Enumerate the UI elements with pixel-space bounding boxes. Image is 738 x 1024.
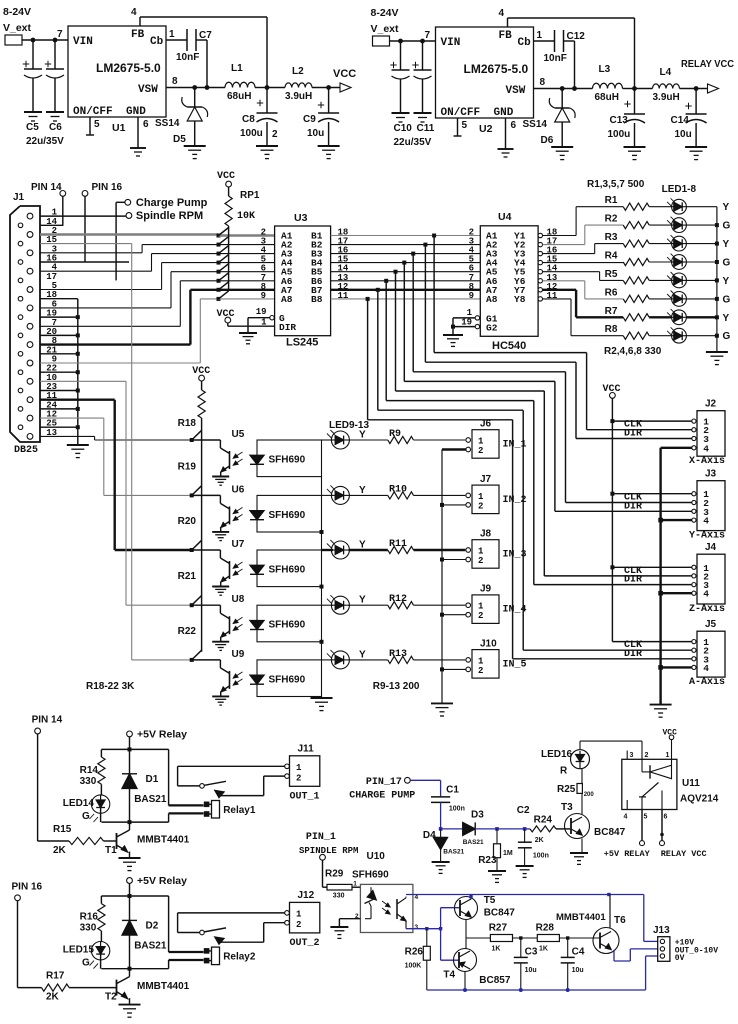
svg-text:A-Axis: A-Axis (689, 676, 725, 688)
svg-text:R15: R15 (53, 824, 72, 835)
svg-text:R5: R5 (605, 269, 618, 280)
svg-text:2: 2 (478, 611, 483, 621)
svg-text:D5: D5 (173, 134, 186, 145)
svg-text:U9: U9 (232, 649, 245, 660)
svg-text:U10: U10 (367, 851, 386, 862)
svg-text:1: 1 (467, 308, 473, 318)
svg-text:J4: J4 (705, 542, 717, 553)
svg-text:J10: J10 (480, 638, 497, 649)
svg-text:HC540: HC540 (492, 340, 526, 352)
svg-text:SS14: SS14 (155, 118, 180, 129)
svg-text:1: 1 (478, 656, 484, 666)
svg-text:J11: J11 (298, 744, 315, 755)
svg-text:10u: 10u (525, 967, 537, 974)
svg-text:PIN_1: PIN_1 (306, 832, 336, 843)
svg-text:100u: 100u (240, 128, 263, 139)
svg-text:BAS21: BAS21 (443, 849, 464, 856)
svg-text:T5: T5 (484, 895, 496, 906)
svg-text:R2: R2 (605, 214, 618, 225)
svg-text:D1: D1 (146, 774, 159, 785)
svg-text:J2: J2 (705, 399, 717, 410)
svg-text:+5V RELAY: +5V RELAY (604, 849, 651, 859)
svg-text:8-24V: 8-24V (3, 6, 31, 18)
svg-text:10K: 10K (237, 211, 255, 222)
svg-text:3.9uH: 3.9uH (285, 91, 312, 102)
svg-text:U5: U5 (232, 429, 245, 440)
svg-text:MMBT4401: MMBT4401 (556, 912, 606, 923)
svg-text:3: 3 (630, 752, 634, 759)
svg-text:R7: R7 (605, 306, 618, 317)
svg-text:1: 1 (478, 437, 484, 447)
svg-text:DB25: DB25 (14, 445, 38, 456)
svg-text:C13: C13 (610, 115, 629, 126)
svg-text:G: G (723, 258, 731, 269)
svg-text:10nF: 10nF (544, 53, 567, 64)
svg-text:C1: C1 (446, 785, 459, 796)
svg-text:V_ext: V_ext (371, 23, 400, 35)
svg-text:OUT_1: OUT_1 (290, 792, 320, 803)
svg-text:0V: 0V (675, 954, 685, 963)
svg-text:A8: A8 (486, 294, 498, 305)
svg-text:T1: T1 (105, 845, 117, 856)
svg-text:CHARGE PUMP: CHARGE PUMP (349, 791, 415, 802)
svg-text:GND: GND (494, 107, 514, 119)
svg-text:VIN: VIN (441, 37, 461, 49)
svg-text:Y: Y (359, 649, 366, 660)
svg-text:U6: U6 (232, 484, 245, 495)
svg-text:PIN 14: PIN 14 (31, 182, 62, 193)
svg-text:C3: C3 (525, 946, 538, 957)
svg-text:C7: C7 (199, 30, 212, 41)
svg-text:FB: FB (499, 30, 513, 42)
svg-text:1: 1 (478, 492, 484, 502)
svg-text:2: 2 (296, 920, 301, 930)
svg-text:10nF: 10nF (176, 52, 199, 63)
svg-text:Y: Y (723, 313, 730, 324)
svg-text:5: 5 (94, 119, 100, 130)
svg-text:U8: U8 (232, 594, 245, 605)
svg-text:Y: Y (359, 595, 366, 606)
svg-text:VCC: VCC (217, 171, 235, 182)
svg-text:PIN 16: PIN 16 (92, 182, 123, 193)
svg-text:VCC: VCC (333, 68, 356, 80)
svg-text:100u: 100u (608, 129, 631, 140)
svg-text:22u/35V: 22u/35V (394, 137, 432, 148)
svg-text:100n: 100n (533, 852, 549, 859)
svg-text:2: 2 (478, 666, 483, 676)
svg-text:Y-Axis: Y-Axis (689, 530, 725, 542)
svg-text:1: 1 (537, 30, 543, 41)
svg-text:U2: U2 (479, 123, 493, 135)
svg-text:22u/35V: 22u/35V (26, 136, 64, 147)
svg-text:100n: 100n (449, 806, 465, 813)
svg-text:1: 1 (666, 752, 670, 759)
svg-text:9: 9 (261, 291, 266, 301)
svg-text:D3: D3 (471, 810, 484, 821)
svg-text:2K: 2K (46, 992, 60, 1003)
svg-text:X-Axis: X-Axis (689, 455, 725, 467)
svg-text:SPINDLE RPM: SPINDLE RPM (299, 846, 358, 856)
svg-text:330: 330 (80, 923, 97, 934)
svg-text:1: 1 (478, 547, 484, 557)
svg-text:R24: R24 (534, 815, 553, 826)
svg-text:C4: C4 (572, 946, 585, 957)
svg-text:J5: J5 (705, 619, 717, 630)
svg-text:R6: R6 (605, 287, 618, 298)
svg-text:LED1-8: LED1-8 (662, 184, 697, 195)
svg-text:Z-Axis: Z-Axis (689, 603, 725, 615)
svg-text:R18-22 3K: R18-22 3K (86, 681, 135, 692)
svg-text:R3: R3 (605, 232, 618, 243)
svg-text:MMBT4401: MMBT4401 (137, 981, 190, 992)
svg-text:R14: R14 (80, 765, 99, 776)
svg-text:R16: R16 (80, 912, 99, 923)
svg-text:AQV214: AQV214 (680, 794, 719, 805)
svg-text:2: 2 (478, 501, 483, 511)
svg-text:R1: R1 (605, 195, 618, 206)
svg-text:7: 7 (425, 30, 431, 41)
svg-text:G2: G2 (486, 323, 498, 334)
svg-text:SFH690: SFH690 (269, 510, 306, 521)
svg-text:Charge Pump: Charge Pump (136, 197, 208, 209)
svg-text:D2: D2 (146, 921, 159, 932)
svg-text:SS14: SS14 (523, 119, 548, 130)
svg-text:U1: U1 (112, 122, 126, 134)
svg-text:2: 2 (645, 752, 649, 759)
svg-text:G: G (723, 221, 731, 232)
svg-text:C12: C12 (567, 31, 586, 42)
svg-text:J8: J8 (480, 529, 492, 540)
svg-text:1: 1 (478, 602, 484, 612)
svg-text:T3: T3 (561, 802, 573, 813)
svg-text:8: 8 (172, 76, 178, 87)
svg-text:Spindle RPM: Spindle RPM (136, 210, 203, 222)
svg-text:R17: R17 (46, 971, 65, 982)
svg-text:LED14: LED14 (63, 798, 95, 809)
svg-text:VSW: VSW (138, 84, 158, 96)
svg-text:2: 2 (478, 446, 483, 456)
svg-text:FB: FB (131, 29, 145, 41)
svg-text:MMBT4401: MMBT4401 (137, 835, 190, 846)
svg-text:2K: 2K (535, 837, 544, 844)
svg-text:200: 200 (584, 792, 595, 798)
svg-text:Y: Y (723, 202, 730, 213)
svg-text:LM2675-5.0: LM2675-5.0 (96, 61, 161, 75)
svg-text:LED16: LED16 (541, 749, 573, 760)
svg-text:L1: L1 (231, 63, 243, 74)
svg-text:C5: C5 (26, 122, 39, 133)
svg-text:Y8: Y8 (514, 294, 526, 305)
svg-text:SFH690: SFH690 (269, 455, 306, 466)
svg-text:R8: R8 (605, 324, 618, 335)
svg-text:OUT_2: OUT_2 (290, 938, 320, 949)
svg-text:R4: R4 (605, 251, 618, 262)
svg-text:IN_5: IN_5 (503, 659, 527, 670)
svg-text:R27: R27 (489, 922, 508, 933)
svg-text:R2,4,6,8 330: R2,4,6,8 330 (604, 346, 662, 357)
svg-text:6: 6 (143, 119, 149, 130)
svg-text:R28: R28 (536, 922, 555, 933)
svg-text:Cb: Cb (518, 37, 532, 49)
svg-text:4: 4 (131, 7, 137, 18)
svg-text:C2: C2 (517, 805, 530, 816)
svg-text:4: 4 (703, 663, 709, 674)
svg-text:LS245: LS245 (286, 337, 318, 349)
svg-text:5: 5 (462, 120, 468, 131)
svg-text:PIN 16: PIN 16 (12, 881, 43, 892)
svg-text:10u: 10u (307, 128, 324, 139)
svg-text:C11: C11 (417, 123, 435, 134)
svg-text:R1,3,5,7 500: R1,3,5,7 500 (587, 179, 645, 190)
svg-text:G: G (723, 294, 731, 305)
svg-text:L4: L4 (660, 67, 672, 78)
svg-text:D6: D6 (541, 135, 554, 146)
svg-text:LED15: LED15 (63, 945, 95, 956)
svg-text:U3: U3 (294, 212, 308, 224)
svg-text:330: 330 (333, 892, 345, 899)
svg-text:8-24V: 8-24V (371, 7, 399, 19)
svg-text:Y: Y (359, 430, 366, 441)
svg-text:R22: R22 (178, 626, 197, 637)
svg-text:T4: T4 (443, 970, 455, 981)
svg-text:U4: U4 (498, 211, 512, 223)
svg-text:2K: 2K (53, 845, 67, 856)
svg-text:D4: D4 (423, 830, 436, 841)
svg-text:4: 4 (703, 589, 709, 600)
svg-text:6: 6 (664, 814, 668, 821)
svg-text:8: 8 (540, 77, 546, 88)
svg-text:G: G (82, 811, 90, 822)
svg-text:R9-13 200: R9-13 200 (373, 681, 420, 692)
svg-text:SFH690: SFH690 (352, 870, 389, 881)
svg-text:10u: 10u (572, 967, 584, 974)
svg-text:J3: J3 (705, 469, 717, 480)
svg-text:+5V Relay: +5V Relay (137, 729, 187, 741)
svg-text:RP1: RP1 (240, 190, 260, 201)
svg-text:1K: 1K (492, 946, 501, 953)
svg-text:BC847: BC847 (594, 827, 626, 838)
svg-text:J13: J13 (653, 925, 670, 936)
svg-text:VSW: VSW (506, 85, 526, 97)
svg-text:R23: R23 (478, 855, 497, 866)
svg-text:R21: R21 (178, 571, 197, 582)
svg-text:R: R (560, 766, 568, 777)
svg-text:1: 1 (296, 763, 302, 773)
svg-text:SFH690: SFH690 (269, 620, 306, 631)
svg-text:R18: R18 (178, 418, 197, 429)
svg-text:DIR: DIR (279, 322, 296, 333)
svg-text:LM2675-5.0: LM2675-5.0 (464, 62, 529, 76)
svg-text:Y: Y (723, 276, 730, 287)
svg-text:R19: R19 (178, 461, 197, 472)
svg-text:C9: C9 (303, 114, 316, 125)
svg-text:6: 6 (511, 120, 517, 131)
svg-text:T2: T2 (105, 992, 117, 1003)
svg-text:GND: GND (126, 106, 146, 118)
svg-text:1: 1 (296, 910, 302, 920)
svg-text:A8: A8 (281, 294, 293, 305)
svg-text:SFH690: SFH690 (269, 674, 306, 685)
svg-text:U7: U7 (232, 539, 245, 550)
svg-text:C14: C14 (671, 115, 690, 126)
svg-text:U11: U11 (682, 778, 700, 789)
svg-text:R25: R25 (557, 784, 576, 795)
svg-text:BAS21: BAS21 (134, 941, 167, 952)
svg-text:4: 4 (499, 8, 505, 19)
svg-text:BC857: BC857 (479, 975, 511, 986)
svg-text:2: 2 (296, 773, 301, 783)
svg-text:VIN: VIN (73, 36, 93, 48)
svg-text:BAS21: BAS21 (134, 794, 167, 805)
svg-text:ON/CFF: ON/CFF (441, 107, 481, 119)
svg-text:L2: L2 (292, 66, 304, 77)
svg-text:1: 1 (353, 880, 357, 887)
svg-text:RELAY VCC: RELAY VCC (661, 849, 707, 859)
svg-text:19: 19 (256, 307, 267, 317)
svg-text:2: 2 (272, 129, 278, 140)
svg-text:5: 5 (644, 814, 648, 821)
svg-text:T6: T6 (614, 915, 626, 926)
svg-text:9: 9 (469, 291, 474, 301)
svg-text:BC847: BC847 (484, 908, 516, 919)
svg-text:1M: 1M (503, 850, 513, 857)
svg-text:BAS21: BAS21 (463, 839, 484, 846)
svg-text:100K: 100K (405, 963, 422, 970)
svg-text:Y: Y (723, 239, 730, 250)
svg-text:68uH: 68uH (227, 91, 251, 102)
svg-text:L3: L3 (599, 64, 611, 75)
svg-text:+5V Relay: +5V Relay (137, 875, 187, 887)
svg-text:Y: Y (359, 540, 366, 551)
svg-text:2: 2 (478, 556, 483, 566)
svg-text:J1: J1 (13, 192, 25, 203)
svg-text:PIN 14: PIN 14 (32, 715, 63, 726)
svg-text:11: 11 (338, 291, 349, 301)
svg-text:Relay2: Relay2 (223, 952, 256, 963)
svg-text:G: G (723, 331, 731, 342)
svg-text:C6: C6 (49, 122, 62, 133)
svg-text:R26: R26 (405, 946, 424, 957)
svg-text:10u: 10u (675, 129, 692, 140)
svg-text:RELAY VCC: RELAY VCC (681, 58, 734, 70)
svg-text:C10: C10 (394, 123, 413, 134)
svg-text:C8: C8 (242, 114, 255, 125)
svg-text:R20: R20 (178, 516, 197, 527)
svg-text:3: 3 (415, 924, 419, 931)
svg-text:4: 4 (703, 516, 709, 527)
svg-text:J9: J9 (480, 584, 492, 595)
svg-text:1: 1 (169, 29, 175, 40)
svg-text:V_ext: V_ext (3, 22, 32, 34)
svg-text:330: 330 (80, 776, 97, 787)
svg-text:PIN_17: PIN_17 (366, 777, 402, 788)
svg-text:R29: R29 (325, 869, 344, 880)
svg-text:J12: J12 (298, 890, 315, 901)
svg-text:Y: Y (359, 485, 366, 496)
svg-text:7: 7 (57, 29, 63, 40)
svg-text:68uH: 68uH (595, 92, 619, 103)
svg-text:3.9uH: 3.9uH (653, 92, 680, 103)
svg-text:B8: B8 (311, 294, 323, 305)
svg-text:Relay1: Relay1 (223, 805, 256, 816)
svg-text:4: 4 (703, 443, 709, 454)
svg-text:1K: 1K (539, 946, 548, 953)
svg-text:J7: J7 (480, 474, 492, 485)
svg-text:SFH690: SFH690 (269, 565, 306, 576)
svg-text:G: G (82, 958, 90, 969)
svg-text:ON/CFF: ON/CFF (73, 106, 113, 118)
svg-text:Cb: Cb (150, 36, 164, 48)
svg-text:4: 4 (624, 814, 628, 821)
